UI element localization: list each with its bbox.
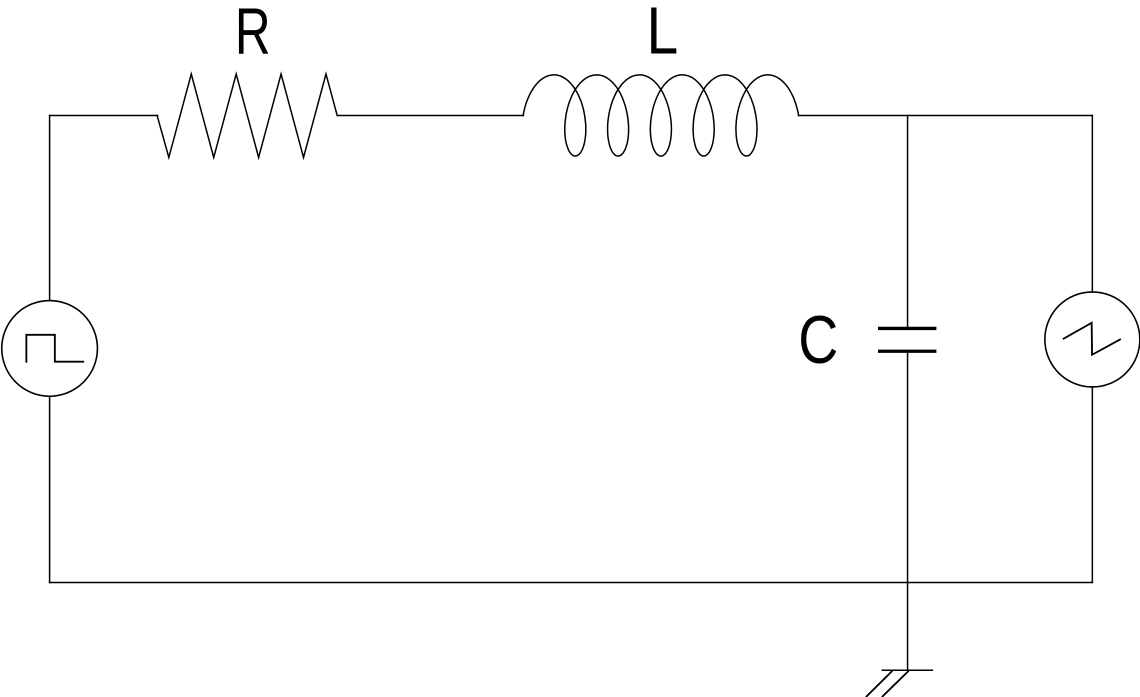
- resistor R (zigzag): [157, 74, 337, 157]
- square-wave symbol: [26, 335, 83, 362]
- wire: capacitor branch upper: [907, 115, 909, 326]
- wire: right vertical lower: [1091, 387, 1093, 583]
- wire: capacitor branch lower to ground: [907, 353, 909, 670]
- wire: left vertical upper: [49, 115, 51, 300]
- inductor L (looped coil): [523, 75, 799, 156]
- sawtooth symbol: [1064, 323, 1120, 355]
- svg-text:C: C: [798, 303, 838, 379]
- wire: inductor to top-right corner: [799, 114, 1092, 116]
- wire: resistor to inductor: [338, 114, 524, 116]
- wire: bottom horizontal: [50, 582, 1093, 584]
- capacitor C top plate: [880, 327, 935, 330]
- wire: right vertical upper: [1091, 115, 1093, 292]
- ground hatch stroke 2: [883, 672, 908, 697]
- svg-text:L: L: [647, 0, 679, 69]
- ground hatch stroke 1: [867, 672, 892, 697]
- ground bar: [882, 669, 932, 671]
- capacitor C bottom plate: [880, 350, 935, 353]
- source V2 sawtooth circle: [1045, 292, 1140, 387]
- wire: left vertical lower: [49, 396, 51, 582]
- wire: top-left horizontal segment: [50, 114, 158, 116]
- svg-text:R: R: [235, 0, 271, 69]
- source V1 square-wave circle: [2, 301, 98, 397]
